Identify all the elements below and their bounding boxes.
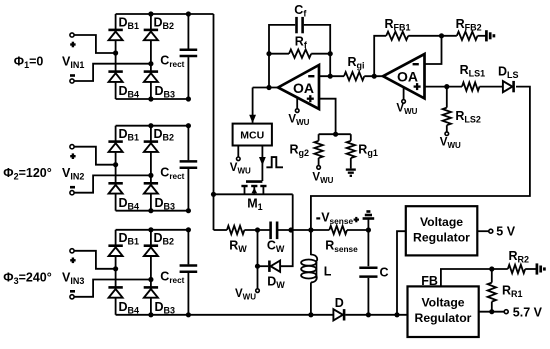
block voltage regulator U2 bbox=[408, 286, 479, 337]
wire OA1 noninverting input bbox=[319, 99, 336, 135]
node phase2 top bus bbox=[116, 123, 191, 128]
wire feedback right vertical bbox=[329, 54, 331, 76]
wire U1 input bbox=[397, 231, 406, 315]
ground Rg1 bbox=[346, 170, 356, 176]
node phase1 top bus bbox=[116, 11, 214, 16]
node Rf right bbox=[328, 51, 333, 56]
wire C top bbox=[367, 230, 369, 266]
label DB2 phase2 bbox=[154, 127, 175, 143]
diode DB3 phase2 bbox=[144, 183, 158, 193]
capacitor Crect phase2 bbox=[180, 161, 198, 167]
wire U2 output bbox=[479, 311, 505, 313]
wire Rsense right bbox=[347, 229, 368, 231]
svg-text:Regulator: Regulator bbox=[415, 311, 472, 325]
capacitor Crect phase1 bbox=[180, 50, 198, 56]
label RLS1 bbox=[460, 63, 486, 79]
label VWU OA1 bbox=[288, 114, 309, 128]
wire M1 source rail bbox=[214, 193, 293, 195]
label Dw bbox=[267, 274, 285, 290]
diode DB2 phase2 bbox=[144, 142, 158, 152]
diode Dw bbox=[269, 261, 280, 272]
diode DB4 phase3 bbox=[108, 287, 122, 297]
resistor RR2 bbox=[492, 265, 525, 273]
capacitor Cf bbox=[297, 17, 303, 33]
terminal VIN3 minus bbox=[70, 291, 75, 299]
label VWU Dw bbox=[235, 288, 256, 302]
svg-text:FB: FB bbox=[421, 274, 438, 288]
wire phase3 right leg bbox=[150, 230, 152, 315]
node OA1 output feedback bbox=[266, 85, 271, 90]
transistor M1 bbox=[241, 182, 266, 195]
node Rw Cw junction bbox=[255, 227, 260, 232]
wire M1 drain down bbox=[292, 194, 294, 230]
node OA1 inverting bbox=[328, 74, 333, 79]
node gate divider top bbox=[319, 132, 351, 137]
terminal 5.7V bbox=[504, 310, 508, 314]
ground RR2 sideways bbox=[537, 263, 545, 274]
wire to Rsense bbox=[311, 229, 329, 231]
wire phase2 right leg bbox=[150, 126, 152, 211]
label DB1 phase1 bbox=[119, 15, 140, 31]
ground Vsense inverted bbox=[363, 212, 375, 231]
svg-text:Φ1=0: Φ1=0 bbox=[14, 55, 44, 71]
wire DC plus rail bbox=[213, 14, 215, 230]
node Dw cathode bbox=[255, 264, 260, 269]
node phase3 AC left bbox=[113, 266, 118, 271]
diode DB1 phase2 bbox=[108, 142, 122, 152]
label VWU MCU bbox=[230, 162, 251, 176]
MCU box bbox=[233, 124, 272, 146]
svg-text:5 V: 5 V bbox=[496, 225, 515, 239]
node RR1 bottom bbox=[489, 309, 494, 314]
label RR2 bbox=[509, 249, 530, 265]
node Rf left bbox=[266, 51, 271, 56]
diode DB3 phase1 bbox=[144, 72, 158, 82]
resistor Rgi bbox=[344, 72, 364, 80]
label Cw bbox=[267, 239, 285, 255]
wire Rgi to OA2 output bbox=[364, 75, 383, 77]
node phase3 AC right bbox=[148, 277, 153, 282]
label Cf bbox=[294, 3, 307, 18]
label RFB1 bbox=[385, 17, 411, 33]
diode DB1 phase1 bbox=[108, 30, 122, 40]
terminal VWU Rg2 bbox=[317, 166, 321, 170]
wire phase2 left leg bbox=[115, 126, 117, 211]
label DB4 phase2 bbox=[119, 196, 140, 212]
label VWU Rg2 bbox=[312, 171, 333, 185]
diode DB2 phase1 bbox=[144, 30, 158, 40]
wire OA1 inverting input bbox=[319, 75, 344, 77]
label phase3 angle bbox=[3, 270, 51, 286]
node phase1 bottom bus bbox=[116, 96, 191, 101]
label C bbox=[380, 265, 389, 279]
terminal VWU OA1 bbox=[295, 98, 299, 113]
label DB3 phase2 bbox=[155, 196, 176, 212]
node phase2 AC left bbox=[113, 162, 118, 167]
label phase1 angle bbox=[14, 55, 44, 71]
wire OA1 to MCU bbox=[249, 88, 256, 124]
wire Crect spine phase1 bbox=[187, 14, 189, 99]
wire RFB1 to RFB2 bbox=[408, 35, 457, 37]
diode DB4 phase2 bbox=[108, 183, 122, 193]
label FB bbox=[421, 274, 438, 288]
label RFB2 bbox=[456, 17, 482, 33]
wire Cw right bbox=[277, 229, 311, 231]
wire VIN3 minus to bridge bbox=[74, 280, 150, 297]
svg-text:Voltage: Voltage bbox=[420, 215, 463, 229]
diode DLS bbox=[503, 81, 514, 92]
wire Cf top row bbox=[269, 25, 330, 88]
terminal VWU MCU bbox=[237, 146, 241, 161]
wire phase1 left leg bbox=[115, 14, 117, 99]
svg-text:MCU: MCU bbox=[240, 130, 264, 142]
wire Crect spine phase2 bbox=[187, 126, 189, 211]
label Rsense bbox=[325, 239, 358, 255]
node FB junction bbox=[489, 266, 494, 271]
label Rg2 bbox=[290, 143, 310, 159]
label DB4 phase1 bbox=[119, 84, 140, 100]
block voltage regulator U1 bbox=[406, 206, 478, 255]
diode DB4 phase1 bbox=[108, 72, 122, 82]
terminal VIN1 plus bbox=[70, 33, 76, 47]
svg-text:D: D bbox=[335, 296, 344, 310]
terminal VWU RLS2 bbox=[445, 132, 449, 136]
ground RFB2 sideways bbox=[486, 30, 494, 41]
wire Crect spine phase3 bbox=[187, 230, 189, 315]
node OA2 output bbox=[372, 74, 377, 79]
resistor RFB2 bbox=[457, 32, 478, 40]
resistor Rsense bbox=[329, 226, 347, 234]
svg-text:Φ2=120°: Φ2=120° bbox=[3, 166, 51, 182]
label DB3 phase3 bbox=[155, 300, 176, 316]
pulse symbol bbox=[266, 157, 283, 167]
wire C bottom bbox=[367, 278, 369, 315]
label VWU RLS2 bbox=[440, 136, 461, 150]
svg-text:C: C bbox=[380, 265, 389, 279]
wire phase1 right leg bbox=[150, 14, 152, 99]
diode DB2 phase3 bbox=[144, 246, 158, 256]
label DB4 phase3 bbox=[119, 300, 140, 316]
wire RLS1 to DLS bbox=[480, 86, 503, 88]
node RFB junction bbox=[439, 33, 444, 38]
svg-text:OA: OA bbox=[397, 69, 418, 85]
label Rgi bbox=[348, 55, 365, 71]
label M1 bbox=[247, 196, 262, 212]
label 5.7V bbox=[513, 306, 543, 320]
wire VIN1 plus to bridge bbox=[74, 35, 114, 53]
label VIN1 bbox=[62, 55, 84, 71]
label Crect phase2 bbox=[160, 165, 184, 181]
terminal VIN2 minus bbox=[70, 187, 75, 195]
wire OA1 output bbox=[253, 87, 278, 89]
svg-text:OA: OA bbox=[293, 80, 314, 96]
resistor Rf bbox=[269, 50, 330, 58]
node M1 drain sense bbox=[288, 227, 293, 232]
svg-text:5.7 V: 5.7 V bbox=[513, 306, 543, 320]
wire VIN1 minus to bridge bbox=[74, 64, 150, 81]
label DB1 phase2 bbox=[119, 127, 140, 143]
label Rf bbox=[295, 35, 308, 51]
node phase1 AC left bbox=[113, 50, 118, 55]
terminal VWU Dw bbox=[256, 289, 260, 293]
label Crect phase3 bbox=[160, 270, 184, 286]
label Vsense bbox=[316, 210, 359, 226]
terminal VWU OA2 bbox=[402, 87, 406, 103]
node Rsense right bbox=[366, 227, 371, 232]
resistor RLS1 bbox=[462, 82, 480, 90]
wire RFB2 to ground bbox=[478, 35, 487, 37]
label DB2 phase3 bbox=[154, 231, 175, 247]
label RR1 bbox=[502, 284, 523, 300]
wire U1 output bbox=[477, 230, 489, 232]
inductor L bbox=[301, 230, 317, 315]
label phase2 angle bbox=[3, 166, 51, 182]
wire VIN2 plus to bridge bbox=[74, 147, 114, 165]
label DB1 phase3 bbox=[119, 231, 140, 247]
terminal 5V bbox=[489, 229, 493, 233]
op-amp OA1 bbox=[278, 65, 319, 109]
label 5V bbox=[496, 225, 515, 239]
terminal VIN1 minus bbox=[70, 76, 75, 84]
node phase3 bottom bus bbox=[116, 312, 408, 317]
terminal VIN2 plus bbox=[70, 145, 76, 159]
label Crect phase1 bbox=[160, 54, 184, 70]
label DB3 phase1 bbox=[155, 84, 176, 100]
wire Dw anode up bbox=[280, 230, 293, 266]
node regulator input junction bbox=[394, 312, 399, 317]
wire RFB1 left vertical bbox=[374, 36, 386, 76]
diode D bbox=[333, 309, 344, 320]
op-amp OA2 bbox=[383, 54, 425, 98]
diode DB1 phase3 bbox=[108, 246, 122, 256]
capacitor C bbox=[359, 268, 377, 277]
wire RR2 to ground bbox=[525, 268, 537, 270]
node L bottom bbox=[308, 312, 313, 317]
wire OA2 inverting to RFB node bbox=[425, 36, 442, 64]
diode DB3 phase3 bbox=[144, 287, 158, 297]
label DB2 phase1 bbox=[154, 15, 175, 31]
resistor RR1 bbox=[488, 269, 496, 312]
label Rg1 bbox=[358, 143, 378, 159]
resistor Rw bbox=[227, 226, 245, 234]
label VIN3 bbox=[62, 270, 84, 286]
resistor Rg1 bbox=[347, 134, 355, 168]
node phase2 bottom bus bbox=[116, 208, 191, 213]
wire Rw node down bbox=[257, 230, 259, 289]
svg-text:L: L bbox=[324, 265, 332, 279]
label RLS2 bbox=[455, 109, 481, 125]
wire DLS to sense node bbox=[311, 87, 530, 230]
wire phase3 left leg bbox=[115, 230, 117, 315]
node M1 source junction bbox=[211, 192, 216, 197]
label D bbox=[335, 296, 344, 310]
svg-text:Voltage: Voltage bbox=[421, 296, 464, 310]
svg-text:Regulator: Regulator bbox=[413, 230, 470, 244]
node phase2 AC right bbox=[148, 173, 153, 178]
wire Rw row left bbox=[214, 229, 227, 231]
wire Dw cathode stub bbox=[258, 265, 269, 267]
wire VIN2 minus to bridge bbox=[74, 175, 150, 192]
resistor RFB1 bbox=[386, 32, 408, 40]
resistor RLS2 bbox=[443, 87, 451, 132]
wire Rw to Cw bbox=[244, 229, 270, 231]
label Rw bbox=[229, 239, 247, 255]
node phase1 AC right bbox=[148, 61, 153, 66]
label VWU OA2 bbox=[396, 103, 417, 117]
node OA2 noninverting bbox=[444, 84, 449, 89]
node L top bbox=[308, 227, 313, 232]
wire OA2 noninverting input bbox=[425, 86, 463, 88]
wire VIN3 plus to bridge bbox=[74, 251, 114, 269]
label DLS bbox=[498, 64, 519, 80]
label VIN2 bbox=[62, 166, 84, 182]
capacitor Cw bbox=[271, 222, 278, 240]
wire FB bbox=[441, 269, 492, 286]
node C bottom bbox=[366, 312, 371, 317]
wire MCU gate drive bbox=[259, 146, 266, 182]
label L bbox=[324, 265, 332, 279]
resistor Rg2 bbox=[314, 134, 322, 165]
capacitor Crect phase3 bbox=[180, 266, 198, 272]
svg-text:Φ3=240°: Φ3=240° bbox=[3, 270, 51, 286]
terminal VIN3 plus bbox=[70, 249, 76, 263]
node phase3 top bus bbox=[116, 227, 191, 232]
